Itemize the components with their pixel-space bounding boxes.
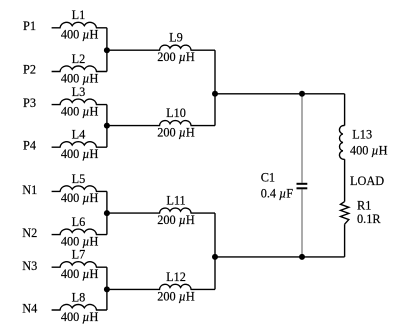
svg-text:200 µH: 200 µH bbox=[157, 126, 195, 140]
svg-text:400 µH: 400 µH bbox=[61, 71, 99, 85]
node N2 bbox=[22, 226, 37, 240]
svg-text:L1: L1 bbox=[72, 8, 86, 22]
label L13 bbox=[352, 128, 372, 142]
svg-text:N1: N1 bbox=[22, 183, 37, 197]
svg-text:N3: N3 bbox=[22, 259, 37, 273]
svg-text:L7: L7 bbox=[72, 248, 86, 262]
value L3 400 uH bbox=[61, 104, 99, 118]
label L10 bbox=[166, 106, 186, 120]
svg-text:0.4 µF: 0.4 µF bbox=[261, 186, 294, 200]
svg-text:L3: L3 bbox=[72, 85, 86, 99]
svg-text:R1: R1 bbox=[357, 199, 371, 213]
svg-text:L11: L11 bbox=[166, 194, 185, 208]
wire top rail bbox=[215, 93, 345, 95]
svg-text:L10: L10 bbox=[166, 106, 186, 120]
svg-text:400 µH: 400 µH bbox=[61, 234, 99, 248]
svg-text:L13: L13 bbox=[352, 128, 372, 142]
svg-text:N2: N2 bbox=[22, 226, 37, 240]
capacitor C1 plates bbox=[297, 184, 308, 189]
svg-text:L9: L9 bbox=[169, 31, 183, 45]
label R1 bbox=[357, 199, 371, 213]
label L5 bbox=[72, 172, 86, 186]
label L12 bbox=[166, 270, 186, 284]
node N1 bbox=[22, 183, 37, 197]
svg-text:L2: L2 bbox=[72, 52, 86, 66]
svg-text:P2: P2 bbox=[23, 63, 36, 77]
wire L9-L10 vertical bbox=[214, 50, 216, 125]
value L13 400 uH bbox=[350, 144, 388, 158]
svg-text:P3: P3 bbox=[23, 96, 36, 110]
node junction P1P2 bbox=[104, 47, 110, 53]
svg-text:P1: P1 bbox=[23, 19, 36, 33]
svg-text:400 µH: 400 µH bbox=[61, 104, 99, 118]
svg-text:P4: P4 bbox=[23, 138, 36, 152]
node junction N3N4 bbox=[104, 286, 110, 292]
svg-text:L5: L5 bbox=[72, 172, 86, 186]
label L3 bbox=[72, 85, 86, 99]
value L7 400 uH bbox=[61, 267, 99, 281]
resistor R1 bbox=[341, 202, 349, 225]
svg-text:0.1R: 0.1R bbox=[357, 212, 381, 226]
label L11 bbox=[166, 194, 185, 208]
node junction P3P4 bbox=[104, 123, 110, 129]
inductor L9 bbox=[107, 45, 215, 50]
inductor L4 bbox=[52, 142, 107, 148]
svg-text:400 µH: 400 µH bbox=[350, 144, 388, 158]
node N4 bbox=[22, 302, 37, 316]
node N3 bbox=[22, 259, 37, 273]
inductor L2 bbox=[52, 66, 107, 72]
inductor L5 bbox=[52, 186, 107, 192]
node junction C1 bottom bbox=[299, 254, 305, 260]
capacitor C1 lead bottom bbox=[301, 189, 303, 257]
inductor L1 bbox=[52, 22, 107, 28]
value C1 0.4 uF bbox=[261, 186, 294, 200]
value L12 200 uH bbox=[157, 289, 195, 303]
inductor L3 bbox=[52, 99, 107, 105]
value L10 200 uH bbox=[157, 126, 195, 140]
inductor L13 bbox=[339, 126, 344, 160]
inductor L7 bbox=[52, 262, 107, 268]
svg-text:400 µH: 400 µH bbox=[61, 310, 99, 324]
label L9 bbox=[169, 31, 183, 45]
label L8 bbox=[72, 290, 86, 304]
node P3 bbox=[23, 96, 36, 110]
value L2 400 uH bbox=[61, 71, 99, 85]
value L11 200 uH bbox=[157, 213, 195, 227]
svg-text:200 µH: 200 µH bbox=[157, 50, 195, 64]
svg-text:200 µH: 200 µH bbox=[157, 213, 195, 227]
label L1 bbox=[72, 8, 86, 22]
wire N3-N4 vertical bbox=[106, 267, 108, 310]
wire P3-P4 vertical bbox=[106, 105, 108, 148]
inductor L12 bbox=[107, 284, 215, 289]
wire L11-L12 vertical bbox=[214, 213, 216, 289]
value L1 400 uH bbox=[61, 28, 99, 42]
svg-text:400 µH: 400 µH bbox=[61, 191, 99, 205]
node junction N1N2 bbox=[104, 210, 110, 216]
value L9 200 uH bbox=[157, 50, 195, 64]
svg-text:LOAD: LOAD bbox=[350, 174, 384, 188]
svg-text:N4: N4 bbox=[22, 302, 37, 316]
inductor L8 bbox=[52, 304, 107, 310]
value L4 400 uH bbox=[61, 147, 99, 161]
svg-text:400 µH: 400 µH bbox=[61, 28, 99, 42]
label L7 bbox=[72, 248, 86, 262]
node junction C1 top bbox=[299, 91, 305, 97]
wire P1-P2 vertical bbox=[106, 28, 108, 72]
svg-text:L6: L6 bbox=[72, 215, 86, 229]
svg-text:400 µH: 400 µH bbox=[61, 267, 99, 281]
node P4 bbox=[23, 138, 36, 152]
node junction top L9L10 bbox=[212, 91, 218, 97]
wire N1-N2 vertical bbox=[106, 191, 108, 234]
wire L13 to R1 bbox=[344, 159, 346, 201]
label C1 bbox=[261, 170, 275, 184]
value L6 400 uH bbox=[61, 234, 99, 248]
node junction bottom L11L12 bbox=[212, 254, 218, 260]
value R1 0.1R bbox=[357, 212, 381, 226]
node P1 bbox=[23, 19, 36, 33]
svg-text:L12: L12 bbox=[166, 270, 186, 284]
label L2 bbox=[72, 52, 86, 66]
capacitor C1 lead top bbox=[301, 94, 303, 183]
label LOAD bbox=[350, 174, 384, 188]
wire R1 to bottom rail bbox=[344, 224, 346, 257]
wire bottom rail bbox=[215, 256, 345, 258]
label L4 bbox=[72, 128, 86, 142]
svg-text:400 µH: 400 µH bbox=[61, 147, 99, 161]
svg-text:C1: C1 bbox=[261, 170, 275, 184]
svg-text:200 µH: 200 µH bbox=[157, 289, 195, 303]
svg-text:L4: L4 bbox=[72, 128, 86, 142]
label L6 bbox=[72, 215, 86, 229]
value L8 400 uH bbox=[61, 310, 99, 324]
value L5 400 uH bbox=[61, 191, 99, 205]
inductor L11 bbox=[107, 208, 215, 213]
wire right branch top bbox=[344, 94, 346, 126]
svg-text:L8: L8 bbox=[72, 290, 86, 304]
inductor L6 bbox=[52, 229, 107, 235]
inductor L10 bbox=[107, 121, 215, 126]
node P2 bbox=[23, 63, 36, 77]
